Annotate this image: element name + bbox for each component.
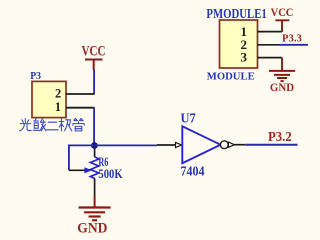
potentiometer R6 bbox=[69, 149, 123, 197]
svg-text:MODULE: MODULE bbox=[207, 71, 255, 83]
pin 2 of PMODULE1 bbox=[258, 44, 280, 46]
triangle body bbox=[182, 126, 220, 163]
二 bbox=[47, 122, 59, 130]
wiper pin bbox=[69, 169, 85, 171]
svg-text:3: 3 bbox=[241, 49, 248, 64]
pin 3 of PMODULE1 bbox=[258, 57, 283, 59]
input pin arrow bbox=[176, 142, 182, 147]
wire module pin2 to P3.3 bbox=[280, 44, 309, 46]
敏 bbox=[33, 119, 46, 131]
wire VCC to P3 pin 2 bbox=[93, 70, 95, 95]
pin 2 of P3 bbox=[66, 93, 95, 95]
top pin bbox=[94, 149, 96, 157]
power port VCC (left) bbox=[82, 43, 106, 70]
connector PMODULE1 bbox=[206, 7, 282, 83]
zigzag body bbox=[90, 157, 98, 179]
inverter U7 7404 bbox=[157, 112, 246, 180]
power port VCC (module) bbox=[271, 7, 294, 32]
svg-text:1: 1 bbox=[55, 100, 61, 114]
wire P3 pin1 down to node bbox=[93, 108, 95, 146]
input pin bbox=[157, 144, 176, 146]
junction node bbox=[91, 142, 98, 149]
pin 1 of PMODULE1 bbox=[258, 31, 283, 33]
svg-text:2: 2 bbox=[55, 86, 61, 100]
svg-text:P3.2: P3.2 bbox=[268, 129, 292, 144]
管 bbox=[73, 118, 84, 130]
output pin arrow bbox=[228, 142, 234, 147]
极 bbox=[59, 119, 72, 131]
svg-text:VCC: VCC bbox=[271, 7, 294, 19]
power port GND (bottom) bbox=[77, 196, 110, 237]
wire node to inverter input bbox=[94, 144, 157, 146]
wiper arrow bbox=[84, 167, 92, 173]
bottom pin bbox=[94, 178, 96, 196]
svg-text:U7: U7 bbox=[181, 112, 196, 127]
svg-text:VCC: VCC bbox=[82, 43, 106, 59]
wire inverter output to P3.2 bbox=[246, 144, 298, 146]
svg-text:GND: GND bbox=[77, 221, 107, 237]
connector P3 bbox=[30, 71, 94, 118]
svg-text:500K: 500K bbox=[98, 167, 122, 181]
power port GND (module) bbox=[269, 58, 295, 95]
svg-text:7404: 7404 bbox=[181, 164, 205, 179]
wire wiper arm bbox=[69, 145, 94, 170]
svg-text:P3: P3 bbox=[30, 71, 41, 82]
label 光敏二极管 (photodiode) drawn as strokes bbox=[20, 118, 85, 131]
output bubble bbox=[220, 141, 228, 149]
svg-text:P3.3: P3.3 bbox=[282, 34, 302, 45]
output pin bbox=[235, 144, 246, 146]
pin 1 of P3 bbox=[66, 107, 95, 109]
svg-text:GND: GND bbox=[270, 82, 294, 94]
光 bbox=[20, 119, 32, 131]
